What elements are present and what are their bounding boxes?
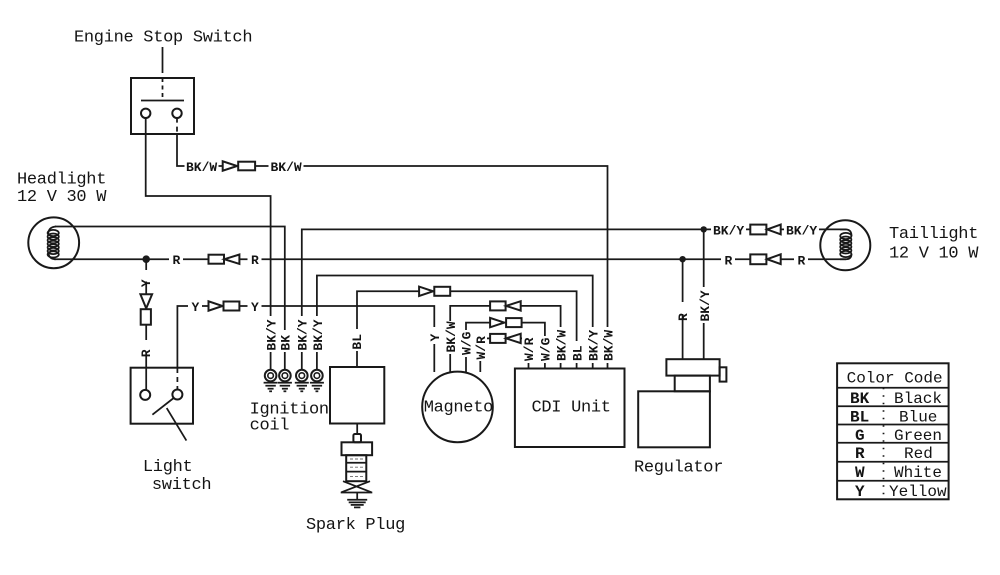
label R right (taillight) — [794, 253, 808, 267]
pin label Y (magneto) — [428, 327, 441, 344]
svg-text:coil: coil — [250, 417, 290, 436]
svg-text:BK/Y: BK/Y — [587, 330, 602, 361]
regulator — [638, 359, 726, 447]
svg-text:Y: Y — [139, 279, 154, 287]
ignition coil terminal 2 — [278, 370, 292, 391]
node: junction dot R/Y at headlight — [142, 255, 150, 263]
svg-text:Engine Stop Switch: Engine Stop Switch — [74, 29, 252, 48]
wire: BK/Y line ignition coil terminal 3 to taillight — [302, 229, 846, 369]
svg-text:R: R — [139, 349, 154, 357]
svg-text:Y: Y — [428, 334, 443, 342]
pin label BL (ignition coil) — [350, 329, 364, 351]
svg-text:BK/W: BK/W — [271, 160, 302, 175]
svg-text:Headlight: Headlight — [17, 171, 106, 190]
svg-text:R: R — [173, 253, 181, 268]
inline connector on Y drop: rect — [141, 309, 151, 325]
ignition coil terminal 1 — [264, 370, 278, 391]
engine stop switch S1 — [131, 47, 194, 134]
svg-text:R: R — [251, 253, 259, 268]
svg-text:BK/W: BK/W — [601, 330, 616, 361]
pin label W/R (CDI) — [522, 336, 535, 363]
svg-text:BL: BL — [570, 345, 585, 361]
label BK/W right — [269, 159, 304, 173]
wire: engine stop switch right terminal BK/W to CDI unit — [177, 134, 608, 369]
svg-text:Light: Light — [143, 458, 193, 477]
pin label BL (CDI) — [571, 341, 584, 363]
svg-text:Black: Black — [894, 390, 942, 408]
svg-text:12 V 30 W: 12 V 30 W — [17, 188, 107, 207]
connector pair on BK/W line (engine stop) — [223, 161, 255, 170]
wire: BK/Y drop to regulator — [703, 229, 705, 359]
label R left — [169, 253, 183, 266]
svg-text:R: R — [798, 253, 806, 268]
svg-text:Spark Plug: Spark Plug — [306, 516, 405, 535]
label R left (taillight) — [721, 253, 735, 267]
ignition coil box — [330, 367, 384, 424]
svg-text:R: R — [855, 445, 865, 463]
wire: headlight top to ignition coil terminal 2 (BK) — [55, 227, 285, 370]
svg-text:Red: Red — [904, 445, 933, 463]
inline connector on Y drop: label R — [140, 340, 153, 352]
wire: W/G magneto to CDI — [466, 323, 545, 372]
connector pair on BK/Y line (taillight) — [750, 225, 780, 235]
svg-text:BK/Y: BK/Y — [713, 223, 744, 238]
pin label W/G (magneto) — [460, 330, 473, 357]
connector pair on W/R magneto line — [490, 334, 521, 343]
svg-text:BK/Y: BK/Y — [295, 319, 310, 350]
magneto M — [422, 372, 493, 443]
pin label BK/Y terminal 3 — [295, 316, 309, 352]
CDI unit box — [515, 369, 625, 448]
svg-text:BK/Y: BK/Y — [264, 319, 279, 350]
wire: Y light switch to magneto — [177, 306, 434, 372]
svg-text:BK/Y: BK/Y — [698, 290, 713, 321]
svg-text:BK/Y: BK/Y — [786, 223, 817, 238]
label BK/Y left (taillight) — [711, 223, 746, 237]
svg-text:Y: Y — [251, 300, 259, 315]
wire: R drop to regulator — [682, 259, 684, 359]
svg-text:Blue: Blue — [899, 409, 937, 427]
wire: junction to light switch left terminal — [145, 259, 147, 390]
node: junction dot R taillight — [679, 256, 685, 262]
svg-text:BK: BK — [850, 390, 870, 408]
connector pair on R line (headlight) — [209, 255, 240, 264]
svg-text:W/G: W/G — [459, 331, 474, 355]
inline connector on Y drop: label Y — [140, 270, 153, 282]
taillight lamp — [820, 220, 870, 270]
connector pair on R line (taillight) — [750, 254, 780, 264]
svg-text:R: R — [725, 253, 733, 268]
svg-text:Regulator: Regulator — [634, 459, 723, 478]
headlight lamp — [28, 217, 79, 268]
label BK/Y right (taillight) — [784, 223, 819, 237]
spark plug — [341, 424, 373, 508]
svg-text:R: R — [676, 313, 691, 321]
ignition coil terminal 3 — [295, 370, 309, 391]
light switch S2 — [131, 368, 193, 441]
svg-text:White: White — [894, 464, 942, 482]
wire: BK/Y ignition coil terminal 4 to CDI — [317, 276, 593, 370]
inline connector on Y drop: triangle down — [140, 294, 152, 308]
svg-text:BK/W: BK/W — [444, 321, 459, 352]
node: junction dot BK/Y taillight — [701, 226, 707, 232]
svg-text:Magneto: Magneto — [424, 399, 493, 418]
svg-text:switch: switch — [152, 476, 211, 495]
svg-text:BK/W: BK/W — [554, 330, 569, 361]
svg-text:Green: Green — [894, 427, 942, 445]
wire: BK/W magneto to CDI — [450, 306, 560, 372]
label Y right — [248, 300, 262, 313]
wire: engine stop switch left terminal to ignition coil terminal 1 (BK/Y) — [146, 118, 271, 369]
svg-text:G: G — [855, 427, 865, 445]
svg-text:BL: BL — [850, 409, 869, 427]
connector pair on W/G magneto line — [490, 318, 521, 327]
pin label BK terminal 2 — [279, 330, 293, 352]
wire: R line headlight to taillight — [54, 258, 846, 260]
svg-text:Taillight: Taillight — [889, 225, 978, 244]
pin label R (regulator) — [676, 302, 689, 314]
pin label W/R (magneto) — [474, 334, 487, 361]
svg-text:BL: BL — [350, 334, 365, 350]
pin label BK/W (CDI) — [554, 327, 568, 363]
svg-text:BK: BK — [279, 335, 294, 351]
svg-text:W/R: W/R — [522, 337, 537, 361]
svg-text:W: W — [855, 464, 865, 482]
svg-text:Color Code: Color Code — [847, 370, 943, 388]
connector pair on BK/W magneto line — [490, 301, 521, 310]
connector pair on Y line (light switch) — [209, 301, 240, 310]
svg-text:BK/Y: BK/Y — [311, 319, 326, 350]
label BK/W left — [185, 159, 219, 173]
connector pair on BL line — [419, 287, 450, 296]
label Y left — [188, 300, 202, 313]
color code table — [837, 363, 949, 499]
ignition coil terminal 4 — [310, 370, 324, 391]
svg-text:CDI Unit: CDI Unit — [532, 399, 611, 418]
wire: BL ignition coil to CDI — [357, 291, 577, 368]
svg-text:Y: Y — [855, 483, 865, 501]
pin label W/G (CDI) — [539, 336, 552, 363]
pin label BK/W (magneto) — [444, 321, 458, 354]
svg-text:W/G: W/G — [538, 337, 553, 361]
svg-text:Y: Y — [192, 300, 200, 315]
pin label BK/Y (regulator) — [698, 287, 712, 323]
pin label BK/W (CDI right) — [601, 327, 615, 363]
pin label BK/Y terminal 4 — [311, 316, 325, 352]
svg-text:Yellow: Yellow — [889, 483, 947, 501]
pin label BK/Y (CDI) — [586, 327, 600, 363]
svg-text:W/R: W/R — [474, 336, 489, 360]
svg-text:BK/W: BK/W — [186, 160, 217, 175]
pin label BK/Y terminal 1 — [264, 316, 278, 352]
wire: W/R magneto to CDI — [480, 338, 528, 372]
svg-text:12 V 10 W: 12 V 10 W — [889, 245, 979, 264]
label R right — [248, 253, 262, 266]
